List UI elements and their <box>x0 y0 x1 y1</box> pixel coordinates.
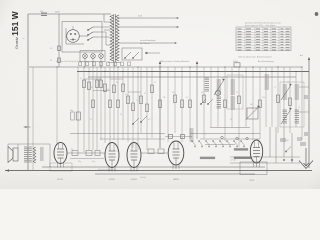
transformer core <box>114 14 116 62</box>
wire vertical x147 <box>146 67 148 150</box>
dial lamps box <box>80 51 105 62</box>
wire heater 3 <box>119 42 177 44</box>
wire vertical x33 <box>32 67 34 170</box>
value label 50k at 172 <box>172 92 175 94</box>
link wires y80 <box>84 78 123 80</box>
band switch contacts <box>191 140 244 147</box>
resistor at 175,95 <box>174 95 177 103</box>
caps above switch <box>165 135 192 139</box>
wire vertical x78 <box>77 67 79 150</box>
wire vertical x232 <box>231 67 233 127</box>
wire vertical x218 <box>217 67 219 127</box>
coil near switch <box>190 129 194 141</box>
value label L3 at 298 <box>298 107 300 109</box>
dark label strip A <box>234 148 248 150</box>
AC symbol on mains <box>23 37 25 41</box>
resistor at 239,96 <box>238 96 241 104</box>
wire vertical with top arrow 2 <box>159 61 161 148</box>
wire vertical x97 <box>96 67 98 150</box>
labels bottom row <box>98 169 116 171</box>
note colors lamps <box>0 0 1 1</box>
antenna riser with arrow <box>300 54 310 168</box>
value label 4,5k at 262 <box>262 97 265 99</box>
junction dots mid bus <box>88 71 296 72</box>
switch contact right bottom <box>285 147 291 153</box>
wire vertical x253 <box>252 67 254 140</box>
transformer bottom lead <box>108 63 121 68</box>
resistor at 89,82 <box>88 82 91 90</box>
labels above bus mid <box>160 60 190 63</box>
wire vertical x204 <box>203 67 205 139</box>
wire vertical with top arrow <box>196 61 198 139</box>
label heater voltage <box>138 16 143 18</box>
small parts above switch <box>221 136 248 139</box>
bus AVC (lower) <box>88 76 296 78</box>
capacitor across mains <box>40 11 47 16</box>
tuning arrow ant 2 <box>281 108 292 125</box>
tube UY11 rectifier <box>250 140 262 167</box>
wire vertical x239 <box>238 67 240 147</box>
resistor at 133,103 <box>132 103 135 111</box>
trimmer right <box>304 96 308 98</box>
wire mid horizontal 4 <box>100 138 165 140</box>
resistor at 93,100 <box>92 100 95 108</box>
wire vertical x190 <box>189 67 191 139</box>
IF tuning indicator <box>215 90 220 95</box>
loudspeaker <box>8 147 18 163</box>
wire top horizontal <box>28 13 111 15</box>
resistor at 260,100 <box>259 100 262 108</box>
wire vertical x266 <box>265 67 267 127</box>
resistor at 123,84 <box>122 84 125 92</box>
tap link right 2 <box>299 111 309 113</box>
label UCH11 a <box>109 179 116 181</box>
value label 70 at 144 <box>144 93 146 95</box>
tuning arrow ant <box>281 84 292 101</box>
link wires y90 <box>93 91 141 93</box>
wire vertical x225 <box>224 67 226 141</box>
bus chassis main <box>5 169 312 171</box>
coil at 205 <box>205 78 209 91</box>
coupling cap 1 <box>71 149 78 156</box>
wire vertical x152 <box>151 67 153 138</box>
value label 0,5 at 136 <box>136 100 138 102</box>
value label 0,2 at 99 <box>99 78 101 80</box>
coupling cap 2 <box>86 151 92 156</box>
wire vertical x118 <box>117 67 119 152</box>
earth symbol <box>299 148 313 169</box>
tuning arrow osc <box>214 79 225 96</box>
IF can frame <box>280 82 304 127</box>
wire vertical x123 <box>122 67 124 140</box>
wire heater 2 <box>119 26 179 28</box>
label UY11 <box>250 180 256 182</box>
wire T3 to T4 <box>141 152 168 154</box>
wire vertical x302 <box>301 67 303 140</box>
value label c at 205 <box>205 134 206 136</box>
wire primary top tap <box>104 22 112 30</box>
title Graetz 151 W (vertical) <box>10 10 20 49</box>
wire lamps to bus <box>85 58 101 67</box>
wire T1 to T2 <box>67 152 105 154</box>
switch contacts mid right <box>200 99 213 105</box>
bus chassis upper <box>42 166 265 168</box>
wire under caps row <box>70 159 104 164</box>
dark label strip B <box>234 157 251 159</box>
wire vertical x93 <box>92 67 94 150</box>
value label a at 110 <box>110 136 111 138</box>
voltage selector box <box>122 48 142 60</box>
wire vertical x89 <box>88 67 90 150</box>
wire vertical x101 <box>100 67 102 140</box>
tube UBF11 <box>168 141 184 169</box>
transformer primary winding <box>110 15 113 61</box>
value label 0,1 at 186 <box>186 97 188 99</box>
grid resistor row <box>148 149 164 154</box>
wire vertical x284 <box>283 67 285 127</box>
label bottom mid <box>140 177 146 179</box>
ant coil L1 <box>283 85 287 99</box>
coupling cap 3 <box>95 151 100 156</box>
wire vertical x110 <box>109 67 111 150</box>
resistor at 160,100 <box>159 100 162 108</box>
socket box below UY11 <box>240 162 267 175</box>
IF coil L5 <box>217 80 221 94</box>
mains switch contacts <box>87 27 98 41</box>
value label 1M at 163 <box>163 97 166 99</box>
capacitor on drop <box>50 46 61 51</box>
bus heater bottom <box>95 173 255 175</box>
wire mid horizontal 3 <box>190 133 260 135</box>
value label 0,2 at 148 <box>148 119 150 121</box>
band switch bar <box>205 144 235 146</box>
wire vertical x105 <box>104 67 106 143</box>
value label L4 at 222 <box>222 77 224 79</box>
wire vertical x211 <box>210 67 212 127</box>
resistor at 152,85 <box>151 85 154 93</box>
wire vertical x246 <box>245 67 247 127</box>
power supply box <box>62 22 102 53</box>
ant coil L2 <box>295 85 299 99</box>
wire vertical x128 <box>127 67 129 142</box>
wire box internal <box>66 28 88 44</box>
value label 50 at 91 <box>91 87 93 89</box>
wire mains left vertical <box>27 14 29 170</box>
switch diagonal mid <box>132 116 147 125</box>
value label 500 at 250 <box>250 104 253 106</box>
label UBF11 <box>173 179 180 181</box>
wire vertical x168 <box>167 67 169 142</box>
wire vertical x290 <box>289 67 291 133</box>
pickup terminals <box>283 159 293 161</box>
cap 2uF marks <box>286 138 302 142</box>
tube voltage table <box>236 27 291 51</box>
junction dots upper bus <box>56 66 302 67</box>
label 220V <box>55 12 60 14</box>
resistor at 118,100 <box>117 100 120 108</box>
wire vertical x182 <box>181 67 183 142</box>
label switch <box>230 160 236 162</box>
note below table <box>238 56 272 59</box>
transformer secondary winding <box>116 15 119 61</box>
wire vertical x278 <box>277 67 279 133</box>
socket outline under UCL11 <box>50 163 72 171</box>
osc coil L4 <box>265 75 269 89</box>
junction tick left <box>24 126 31 128</box>
bottom right links <box>230 157 300 163</box>
resistor at 141,96 <box>140 96 143 104</box>
wire speaker top <box>8 144 50 167</box>
dark label strip C <box>200 157 215 159</box>
tap link right 1 <box>299 86 309 88</box>
tube UCH11 hexode <box>127 143 141 172</box>
value label L2 at 287 <box>287 82 289 84</box>
resistor at 278,95 <box>277 95 280 103</box>
resistor at 290,98 <box>289 98 292 106</box>
wire vertical x160 <box>159 67 161 148</box>
resistor at 84,80 <box>83 80 86 88</box>
wire selector to bus <box>145 52 160 54</box>
wire vertical x175 <box>174 67 176 133</box>
labels above bus right <box>233 60 274 63</box>
paper noise texture <box>0 0 1 1</box>
capacitor on drop 2 <box>50 58 61 63</box>
tuning cap variable <box>246 106 261 121</box>
value label 0,1 at 80 <box>80 78 82 80</box>
dial lamp La2 <box>91 54 96 59</box>
tube UCL11 (output) <box>54 143 67 168</box>
resistor at 101,80 <box>100 80 103 88</box>
resistor at 110,100 <box>109 100 112 108</box>
value label 30 at 230 <box>230 119 232 121</box>
value label 0,1 at 154 <box>154 82 156 84</box>
resistor at 204,95 <box>203 95 206 103</box>
resistor at 105,84 <box>104 84 107 92</box>
padder cap <box>280 139 286 141</box>
capacitor box left <box>71 112 74 120</box>
wire drop from top <box>103 14 105 22</box>
corner mark a <box>315 12 319 16</box>
label UCL11 <box>57 179 64 181</box>
note to heaters <box>140 40 156 45</box>
wire vertical x141 <box>140 67 142 133</box>
value label 25 at 90 <box>90 119 92 121</box>
choke hatched <box>40 148 44 160</box>
resistor at 147,104 <box>146 104 149 112</box>
dial lamp La3 <box>99 54 104 59</box>
wire vertical x133 <box>132 67 134 148</box>
value label 0,3 at 201 <box>201 92 203 94</box>
output transformer <box>24 147 32 162</box>
ant coil L2b <box>295 110 299 123</box>
resistor at 97,80 <box>96 80 99 88</box>
bus screen (middle) <box>77 71 309 73</box>
wire vertical x272 <box>271 67 273 127</box>
caps row above bus <box>79 62 131 66</box>
labels above bus left <box>56 61 81 63</box>
resistor above bus right <box>234 63 240 67</box>
value label L5 at 236 <box>236 92 238 94</box>
value label 0,1 at 125 <box>125 94 127 96</box>
wire mid horizontal 5 <box>200 138 260 140</box>
cap to earth <box>300 143 306 145</box>
resistor at 128,96 <box>127 96 130 104</box>
wire mid horizontal 2 <box>70 133 165 135</box>
wire drop left of box <box>58 14 60 67</box>
value label 3k at 116 <box>116 82 118 84</box>
wire vertical x260 <box>259 67 261 139</box>
ant coil L1b <box>283 110 287 123</box>
value label 0,1 at 107 <box>107 89 109 91</box>
IF coil L6b <box>231 97 235 109</box>
wire vertical x138 <box>137 67 139 150</box>
IF coil L6 <box>231 80 235 94</box>
value label L1 at 274 <box>274 87 276 89</box>
bus +HT (upper) <box>29 66 302 68</box>
label UCH11 b <box>131 179 138 181</box>
wire vertical x57 <box>56 67 58 143</box>
electrolytic 50uF <box>70 110 80 120</box>
wire vertical x114 <box>113 67 115 140</box>
wire heater 1 <box>119 17 179 19</box>
resistor at 190,100 <box>189 100 192 108</box>
wire mid horizontal 1 <box>210 127 250 129</box>
value label b at 160 <box>160 136 161 138</box>
wires box to transformer <box>98 27 110 45</box>
wire vertical x296 <box>295 72 297 128</box>
resistor at 114,85 <box>113 85 116 93</box>
resistor zigzag <box>33 147 36 163</box>
resistor at 182,100 <box>181 100 184 108</box>
IF coil L5b <box>217 97 221 108</box>
value label 0,1 at 120 <box>120 114 122 116</box>
osc coil frame <box>227 75 243 109</box>
tube UCH11 triode <box>105 143 119 172</box>
wire vertical x84 <box>83 67 85 152</box>
resistor at 225,100 <box>224 100 227 108</box>
trimmer right 2 <box>304 133 308 135</box>
dial lamp La1 <box>83 54 88 59</box>
table caption <box>245 22 281 28</box>
wire right bottom <box>270 127 292 163</box>
rectifier tube V5 circle <box>67 26 80 42</box>
